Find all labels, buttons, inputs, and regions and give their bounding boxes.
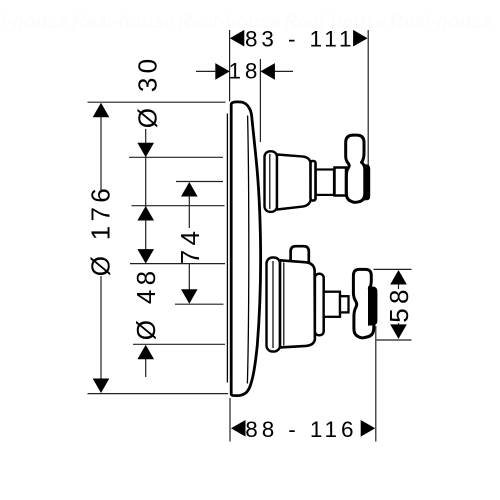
thermostat safety button: [291, 246, 309, 263]
arrow 74 bottom: [181, 289, 198, 304]
arrow dia30 lower (points up to L4): [137, 206, 154, 221]
upper sleeve lip inner line: [269, 154, 271, 209]
arrow 58 top: [390, 270, 407, 285]
upper handle front spoke edge band: [364, 164, 371, 200]
dimension texts rotated: [85, 55, 414, 341]
thermostat sleeve lip: [267, 258, 281, 352]
arrow 74 top: [181, 182, 198, 197]
line R1 handle top reference: [374, 268, 412, 270]
escutcheon plate front crease line: [247, 116, 248, 384]
thermostat body inner line: [283, 263, 285, 346]
extension line 18 right: [259, 59, 261, 142]
arrow dia176 top: [93, 103, 110, 118]
line L5 thermostat top reference: [130, 263, 225, 265]
upper valve sleeve lip: [265, 151, 278, 212]
thermostat stem second step: [340, 296, 349, 312]
thermostat stem first step: [324, 292, 340, 317]
line L1 plate top reference: [88, 101, 226, 103]
arrow dia48 upper (points down to L5): [137, 249, 154, 264]
svg-text:Real-house: Real-house: [390, 12, 493, 33]
svg-text:83 - 111: 83 - 111: [245, 26, 355, 51]
arrow 58 bottom: [390, 324, 407, 339]
dim tail 18 right: [274, 70, 293, 72]
svg-text:Ø 48: Ø 48: [131, 267, 161, 341]
dimension arrowheads: [93, 30, 407, 437]
arrow dia48 lower (points up to L7): [137, 345, 154, 360]
arrow 88-116 left: [231, 420, 246, 437]
thermostat sleeve body: [280, 260, 315, 347]
lower handle front spoke edge band: [368, 286, 377, 326]
extension line 88-116 right: [375, 326, 377, 442]
svg-text:58: 58: [384, 285, 414, 323]
line L6 lower valve axis: [175, 303, 224, 305]
svg-text:Ø 30: Ø 30: [132, 55, 162, 129]
dim stem dia176 bottom: [100, 276, 102, 381]
dim stem dia176 top: [100, 115, 102, 190]
arrow dia176 bottom: [93, 379, 110, 394]
upper valve stem: [316, 170, 334, 195]
arrow 83-111 left: [230, 30, 245, 47]
line plate bottom reference: [88, 393, 229, 395]
arrow 88-116 right: [361, 420, 376, 437]
arrow 18 left: [215, 63, 230, 80]
svg-text:Ø 176: Ø 176: [85, 184, 115, 276]
upper valve sleeve body: [277, 155, 311, 210]
svg-text:18: 18: [229, 59, 262, 84]
line L4 sleeve bottom reference: [132, 205, 225, 207]
extension line 83-111 right: [367, 30, 369, 166]
dimension texts horizontal: [229, 26, 358, 442]
arrow 83-111 right: [353, 30, 368, 47]
upper valve collar: [311, 161, 316, 201]
line L7 thermostat bottom reference: [133, 343, 225, 345]
dim stem dia30-dia48 column: [145, 129, 147, 262]
svg-text:88 - 116: 88 - 116: [245, 417, 357, 442]
upper handle hub: [335, 168, 347, 196]
lower cross handle silhouette: [353, 269, 373, 337]
dim stem 74 top: [188, 184, 190, 228]
dim stem 74 bottom: [188, 264, 190, 302]
watermark row: [0, 12, 493, 33]
upper cross handle silhouette: [346, 135, 365, 202]
svg-text:Real-house: Real-house: [72, 12, 175, 33]
thermostat cap flange: [315, 274, 324, 336]
dim tail 18 left: [196, 70, 215, 72]
escutcheon plate back rim line: [226, 114, 228, 383]
thin reference and extension lines: [88, 30, 412, 442]
thermostat sleeve lip inner line: [272, 261, 274, 348]
extension line left wall face: [229, 30, 231, 101]
dim stem 58: [398, 272, 400, 289]
dim stem dia48 lower tail: [145, 346, 147, 377]
line R2 handle bottom reference: [377, 339, 412, 341]
line L2 sleeve top reference: [129, 156, 223, 158]
svg-text:74: 74: [175, 227, 205, 265]
arrow 18 right: [260, 63, 275, 80]
extension line 88-116 left: [229, 398, 231, 442]
svg-text:Real-house: Real-house: [0, 12, 69, 33]
arrow dia30 upper (points down to L2): [137, 143, 154, 158]
escutcheon plate silhouette: [231, 102, 260, 396]
line L3 upper valve axis: [176, 181, 223, 183]
